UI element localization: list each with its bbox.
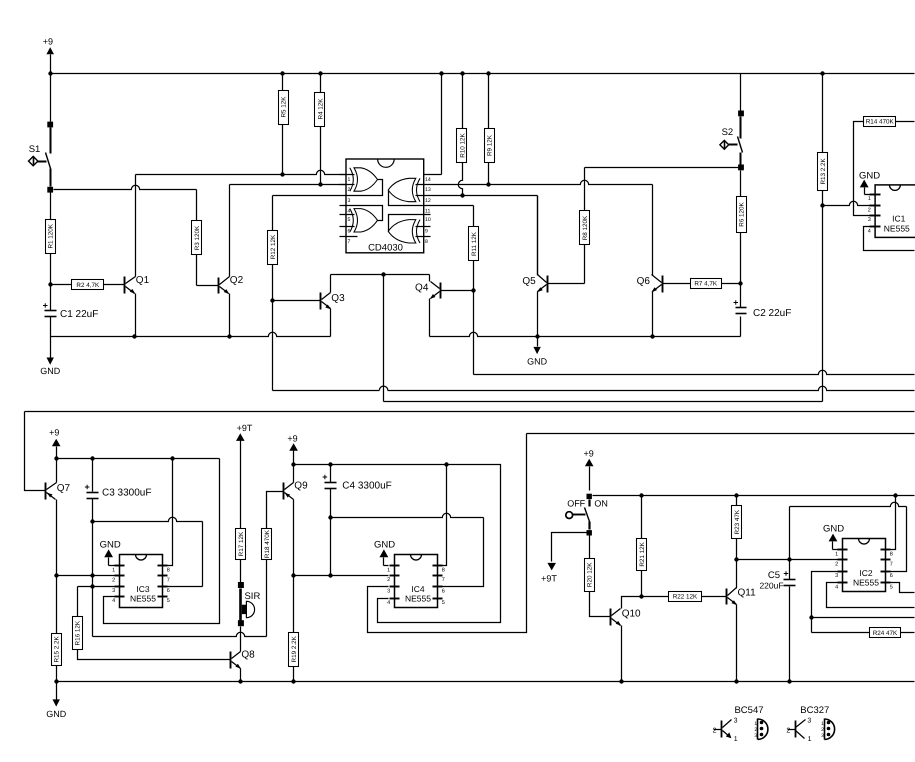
resistor R4 bbox=[315, 74, 325, 185]
svg-text:5: 5 bbox=[167, 598, 170, 604]
svg-text:7: 7 bbox=[348, 239, 351, 245]
svg-text:BC327: BC327 bbox=[800, 705, 829, 716]
svg-text:3: 3 bbox=[821, 733, 824, 739]
svg-text:6: 6 bbox=[167, 588, 170, 594]
svg-text:IC1: IC1 bbox=[892, 214, 906, 224]
svg-text:7: 7 bbox=[167, 577, 170, 583]
ground (IC3 pin1, arrow up) bbox=[100, 539, 121, 565]
svg-text:+: + bbox=[733, 297, 738, 307]
svg-text:R21 12K: R21 12K bbox=[639, 541, 646, 566]
svg-text:3: 3 bbox=[807, 718, 811, 725]
svg-text:10: 10 bbox=[425, 217, 431, 223]
svg-text:Q9: Q9 bbox=[294, 481, 308, 492]
capacitor C3 bbox=[84, 459, 151, 637]
CD4030 pin numbers bbox=[348, 177, 431, 245]
XOR gate B (pins 5,6,4) bbox=[340, 206, 383, 233]
svg-text:C3 3300uF: C3 3300uF bbox=[102, 488, 151, 499]
svg-text:R23 47K: R23 47K bbox=[734, 509, 741, 534]
svg-text:4: 4 bbox=[387, 600, 390, 606]
svg-text:14: 14 bbox=[425, 177, 431, 183]
svg-text:R24 47K: R24 47K bbox=[873, 630, 898, 637]
wire bus pin11/R11 (y=374.4) bbox=[474, 370, 915, 374]
svg-text:CD4030: CD4030 bbox=[368, 242, 403, 253]
svg-text:GND: GND bbox=[46, 709, 67, 719]
XOR gate D (pins 12,13,11) bbox=[388, 178, 423, 205]
resistor R10 bbox=[457, 74, 467, 196]
wire IC2 pin3 net bbox=[809, 572, 914, 633]
svg-text:5: 5 bbox=[890, 585, 893, 591]
svg-text:R19 2.2K: R19 2.2K bbox=[291, 635, 298, 662]
wire IC2 pin4 bbox=[827, 583, 915, 608]
svg-text:8: 8 bbox=[167, 567, 170, 573]
svg-text:R13 2.2K: R13 2.2K bbox=[820, 157, 827, 184]
svg-text:NE555: NE555 bbox=[853, 578, 879, 588]
wire bus Q3/Q4 (y=401.3) bbox=[384, 401, 823, 403]
buzzer SIR bbox=[238, 582, 261, 652]
svg-text:1: 1 bbox=[348, 177, 351, 183]
svg-text:3: 3 bbox=[868, 217, 871, 223]
resistor R2 bbox=[51, 280, 125, 290]
svg-text:+9: +9 bbox=[583, 449, 593, 459]
wire pin12 net bbox=[424, 193, 538, 275]
IC2 NE555 bbox=[843, 539, 886, 592]
transistor Q7 bbox=[25, 412, 71, 634]
svg-text:ON: ON bbox=[594, 498, 608, 508]
svg-text:3: 3 bbox=[754, 733, 757, 739]
wire IC3 pin4 to +9 loop bbox=[104, 459, 220, 624]
wire pin2 net bbox=[230, 182, 347, 186]
svg-text:S1: S1 bbox=[29, 144, 41, 155]
svg-text:5: 5 bbox=[348, 217, 351, 223]
power +9 (Q7) bbox=[49, 427, 60, 458]
wire pin13 net bbox=[424, 180, 653, 275]
svg-text:1: 1 bbox=[734, 736, 738, 743]
svg-text:R8 120K: R8 120K bbox=[582, 215, 589, 240]
wire +9 top rail bbox=[48, 71, 914, 75]
svg-text:R9 12K: R9 12K bbox=[486, 134, 493, 156]
wire pin1 net bbox=[136, 170, 347, 176]
svg-text:220uF: 220uF bbox=[759, 580, 783, 590]
svg-text:+: + bbox=[322, 472, 327, 482]
svg-text:BC547: BC547 bbox=[734, 705, 763, 716]
svg-text:7: 7 bbox=[890, 562, 893, 568]
pinout BC327 bbox=[786, 705, 834, 743]
XOR gate C (pins 8,9,10) bbox=[388, 215, 430, 244]
CD4030 pin 7 stub bbox=[340, 236, 358, 238]
svg-text:2: 2 bbox=[835, 562, 838, 568]
transistor Q5 bbox=[522, 196, 547, 337]
wire C4 to IC4 pin6 bbox=[331, 513, 484, 586]
wire IC3 pin3 to R16 bbox=[78, 587, 115, 617]
wire IC3 pin8 to +9 bbox=[167, 459, 173, 566]
wire +9 rail 2 (y=464.5) and pin4 loop bbox=[291, 462, 500, 622]
wire IC1 pin2 to R13 bbox=[823, 201, 870, 205]
svg-text:6: 6 bbox=[890, 573, 893, 579]
svg-text:GND: GND bbox=[859, 170, 880, 181]
svg-text:2: 2 bbox=[786, 727, 790, 734]
resistor R24 bbox=[870, 628, 915, 638]
wire +9 rail (IC2) bbox=[593, 493, 915, 497]
svg-text:R6 120K: R6 120K bbox=[738, 201, 745, 226]
IC3 NE555 bbox=[120, 555, 163, 608]
switch OFF/ON bbox=[566, 494, 608, 536]
svg-text:7: 7 bbox=[442, 577, 445, 583]
transistor Q1 bbox=[125, 175, 150, 337]
svg-text:Q1: Q1 bbox=[136, 275, 150, 286]
svg-text:S2: S2 bbox=[722, 127, 734, 138]
svg-text:Q2: Q2 bbox=[230, 275, 244, 286]
svg-text:+: + bbox=[783, 569, 788, 579]
transistor Q2 bbox=[219, 185, 244, 337]
svg-text:SIR: SIR bbox=[244, 591, 260, 602]
XOR gate A (pins 1,2,3) bbox=[340, 168, 383, 196]
svg-text:C2 22uF: C2 22uF bbox=[753, 308, 791, 319]
wire C3 bottom to R18 (y=636.5) bbox=[93, 560, 267, 637]
svg-text:R20 12K: R20 12K bbox=[587, 562, 594, 587]
resistor R17 bbox=[236, 529, 246, 583]
svg-text:+: + bbox=[43, 301, 48, 311]
svg-text:Q11: Q11 bbox=[738, 588, 757, 599]
wire bus R12 (y=390.3) bbox=[273, 386, 915, 390]
wire IC4 pin3 loop to bus bbox=[368, 434, 527, 633]
svg-text:1: 1 bbox=[835, 551, 838, 557]
svg-text:R1 120K: R1 120K bbox=[48, 223, 55, 248]
svg-text:R18 470K: R18 470K bbox=[264, 529, 271, 558]
svg-text:+9: +9 bbox=[49, 427, 59, 437]
svg-text:Q4: Q4 bbox=[415, 283, 429, 294]
resistor R22 bbox=[642, 592, 727, 602]
wire ground rail (left, y=337) bbox=[51, 332, 331, 338]
transistor Q4 bbox=[415, 275, 473, 337]
svg-text:R22 12K: R22 12K bbox=[673, 594, 698, 601]
svg-text:2: 2 bbox=[387, 577, 390, 583]
svg-text:IC3: IC3 bbox=[136, 584, 150, 594]
IC1 NE555 bbox=[868, 185, 915, 238]
svg-text:4: 4 bbox=[868, 228, 871, 234]
svg-text:R14 470K: R14 470K bbox=[866, 119, 895, 126]
svg-text:2: 2 bbox=[713, 727, 717, 734]
svg-text:6: 6 bbox=[442, 589, 445, 595]
transistor Q6 bbox=[637, 275, 663, 337]
pinout BC547 bbox=[713, 705, 768, 743]
svg-text:4: 4 bbox=[835, 585, 838, 591]
ground (bottom of C1) bbox=[40, 337, 61, 377]
resistor R20 bbox=[585, 536, 611, 617]
svg-text:3: 3 bbox=[734, 718, 738, 725]
power +9 (Q9) bbox=[287, 433, 298, 464]
resistor R14 bbox=[854, 117, 915, 216]
svg-text:3: 3 bbox=[348, 198, 351, 204]
svg-text:Q6: Q6 bbox=[637, 276, 651, 287]
resistor R23 bbox=[732, 496, 742, 562]
svg-text:R16 12K: R16 12K bbox=[75, 620, 82, 645]
capacitor C1 bbox=[43, 301, 99, 337]
svg-text:R10 12K: R10 12K bbox=[459, 132, 466, 157]
svg-text:+9: +9 bbox=[43, 37, 53, 47]
power +9 (switch) bbox=[583, 449, 593, 491]
resistor R3 bbox=[192, 190, 219, 286]
power +9T (from switch) bbox=[541, 533, 586, 584]
wire R23/C5/IC2 pin2 bbox=[737, 557, 838, 561]
wire bottom ground rail bbox=[54, 679, 914, 683]
resistor R16 bbox=[73, 617, 231, 660]
wire IC2 pin6 link (y=506.6) bbox=[790, 502, 907, 571]
svg-text:R12 12K: R12 12K bbox=[270, 234, 277, 259]
resistor R6 bbox=[737, 171, 747, 286]
svg-text:GND: GND bbox=[823, 524, 844, 535]
svg-text:R17 12K: R17 12K bbox=[238, 531, 245, 556]
wire pin14 to rail bbox=[424, 74, 442, 175]
wire +9 rail (bottom left) bbox=[54, 456, 219, 460]
svg-text:R5 12K: R5 12K bbox=[280, 96, 287, 118]
wire ground rail (mid, y=336.9) bbox=[430, 317, 741, 339]
svg-text:8: 8 bbox=[442, 567, 445, 573]
svg-text:1: 1 bbox=[868, 196, 871, 202]
svg-text:3: 3 bbox=[387, 589, 390, 595]
svg-text:12: 12 bbox=[425, 198, 431, 204]
svg-text:R3 120K: R3 120K bbox=[194, 225, 201, 250]
resistor R19 bbox=[289, 633, 299, 681]
wire S1 to R3 bbox=[54, 185, 197, 189]
svg-text:2: 2 bbox=[868, 208, 871, 214]
svg-text:11: 11 bbox=[425, 209, 430, 215]
switch S2 bbox=[585, 74, 744, 171]
ground (mid) bbox=[537, 337, 539, 347]
svg-text:13: 13 bbox=[425, 187, 431, 193]
wire bus Q7 base (y=411.1) bbox=[25, 411, 915, 413]
resistor R5 bbox=[279, 74, 289, 175]
transistor Q11 bbox=[727, 560, 757, 681]
svg-text:2: 2 bbox=[112, 577, 115, 583]
svg-text:GND: GND bbox=[40, 366, 61, 376]
resistor R21 bbox=[637, 496, 647, 599]
svg-text:R4 12K: R4 12K bbox=[317, 98, 324, 120]
svg-text:Q7: Q7 bbox=[57, 483, 71, 494]
svg-text:IC4: IC4 bbox=[411, 584, 425, 594]
ground (IC4 pin1, arrow up) bbox=[374, 539, 395, 565]
svg-text:3: 3 bbox=[835, 573, 838, 579]
resistor R18 bbox=[262, 492, 284, 560]
svg-text:+9T: +9T bbox=[237, 423, 253, 433]
capacitor C5 bbox=[759, 560, 795, 681]
IC CD4030 bbox=[346, 159, 424, 253]
resistor R8 bbox=[548, 168, 590, 284]
wire IC2 pin5 bbox=[891, 583, 915, 593]
wire IC4 pin8 to rail bbox=[443, 465, 447, 566]
svg-text:C1 22uF: C1 22uF bbox=[60, 309, 98, 320]
resistor R11 bbox=[469, 227, 479, 375]
wire IC2 pin8 to rail bbox=[891, 496, 896, 550]
svg-text:NE555: NE555 bbox=[884, 224, 910, 234]
svg-text:+9: +9 bbox=[287, 433, 297, 443]
svg-text:1: 1 bbox=[112, 567, 115, 573]
svg-text:GND: GND bbox=[100, 539, 121, 550]
ground (IC1 pin 1, arrow up) bbox=[859, 170, 880, 194]
svg-text:Q3: Q3 bbox=[331, 293, 345, 304]
svg-text:1: 1 bbox=[387, 567, 390, 573]
resistor R13 bbox=[818, 74, 828, 402]
wire pin3 net bbox=[273, 195, 347, 197]
svg-text:3: 3 bbox=[112, 588, 115, 594]
transistor Q10 bbox=[611, 597, 642, 681]
svg-text:IC2: IC2 bbox=[859, 568, 873, 578]
svg-text:OFF: OFF bbox=[567, 498, 585, 508]
svg-text:GND: GND bbox=[374, 539, 395, 550]
wire Q3-Q4 collectors bbox=[331, 272, 430, 401]
resistor R1 bbox=[46, 193, 56, 311]
ground (bottom left) bbox=[56, 682, 58, 700]
svg-text:+9T: +9T bbox=[541, 574, 557, 584]
IC4 NE555 bbox=[395, 555, 438, 608]
resistor R12 bbox=[268, 196, 321, 391]
svg-text:NE555: NE555 bbox=[405, 594, 431, 604]
resistor R7 bbox=[663, 279, 741, 289]
svg-text:R7 4,7K: R7 4,7K bbox=[694, 281, 718, 288]
svg-text:9: 9 bbox=[425, 229, 428, 235]
transistor Q9 bbox=[284, 465, 309, 633]
wire bus IC4 pin3 (y=433.4) bbox=[527, 433, 915, 435]
transistor Q8 bbox=[231, 650, 256, 681]
svg-text:Q5: Q5 bbox=[522, 276, 536, 287]
svg-text:1: 1 bbox=[808, 736, 812, 743]
switch S1 bbox=[29, 74, 54, 193]
svg-text:+: + bbox=[84, 482, 89, 492]
resistor R9 bbox=[485, 74, 495, 185]
svg-text:8: 8 bbox=[425, 239, 428, 245]
svg-text:R15 2.2K: R15 2.2K bbox=[54, 635, 61, 662]
svg-text:Q8: Q8 bbox=[241, 650, 255, 661]
svg-text:8: 8 bbox=[890, 551, 893, 557]
wire IC1 pin4 loop bbox=[864, 227, 915, 251]
svg-text:NE555: NE555 bbox=[130, 594, 156, 604]
transistor Q3 bbox=[321, 275, 346, 337]
ground (IC2 pin1, arrow up) bbox=[823, 524, 844, 550]
wire pin11 to R11 bbox=[424, 206, 474, 227]
wire IC3 pin6 to C3 bbox=[93, 517, 203, 586]
capacitor C2 bbox=[733, 284, 791, 320]
wire IC3 pin2 line bbox=[57, 575, 115, 577]
capacitor C4 bbox=[322, 465, 392, 578]
svg-text:C4 3300uF: C4 3300uF bbox=[342, 481, 391, 492]
svg-text:Q10: Q10 bbox=[622, 608, 641, 619]
svg-text:R2 4,7K: R2 4,7K bbox=[76, 282, 100, 289]
svg-text:4: 4 bbox=[112, 598, 115, 604]
power +9T (R17) bbox=[236, 423, 253, 529]
resistor R15 bbox=[52, 634, 62, 681]
wire IC4 pin2 line bbox=[294, 575, 389, 577]
svg-text:5: 5 bbox=[442, 600, 445, 606]
svg-text:GND: GND bbox=[527, 356, 548, 366]
svg-text:R11 12K: R11 12K bbox=[471, 231, 478, 256]
power +9 (top left) bbox=[43, 37, 54, 74]
